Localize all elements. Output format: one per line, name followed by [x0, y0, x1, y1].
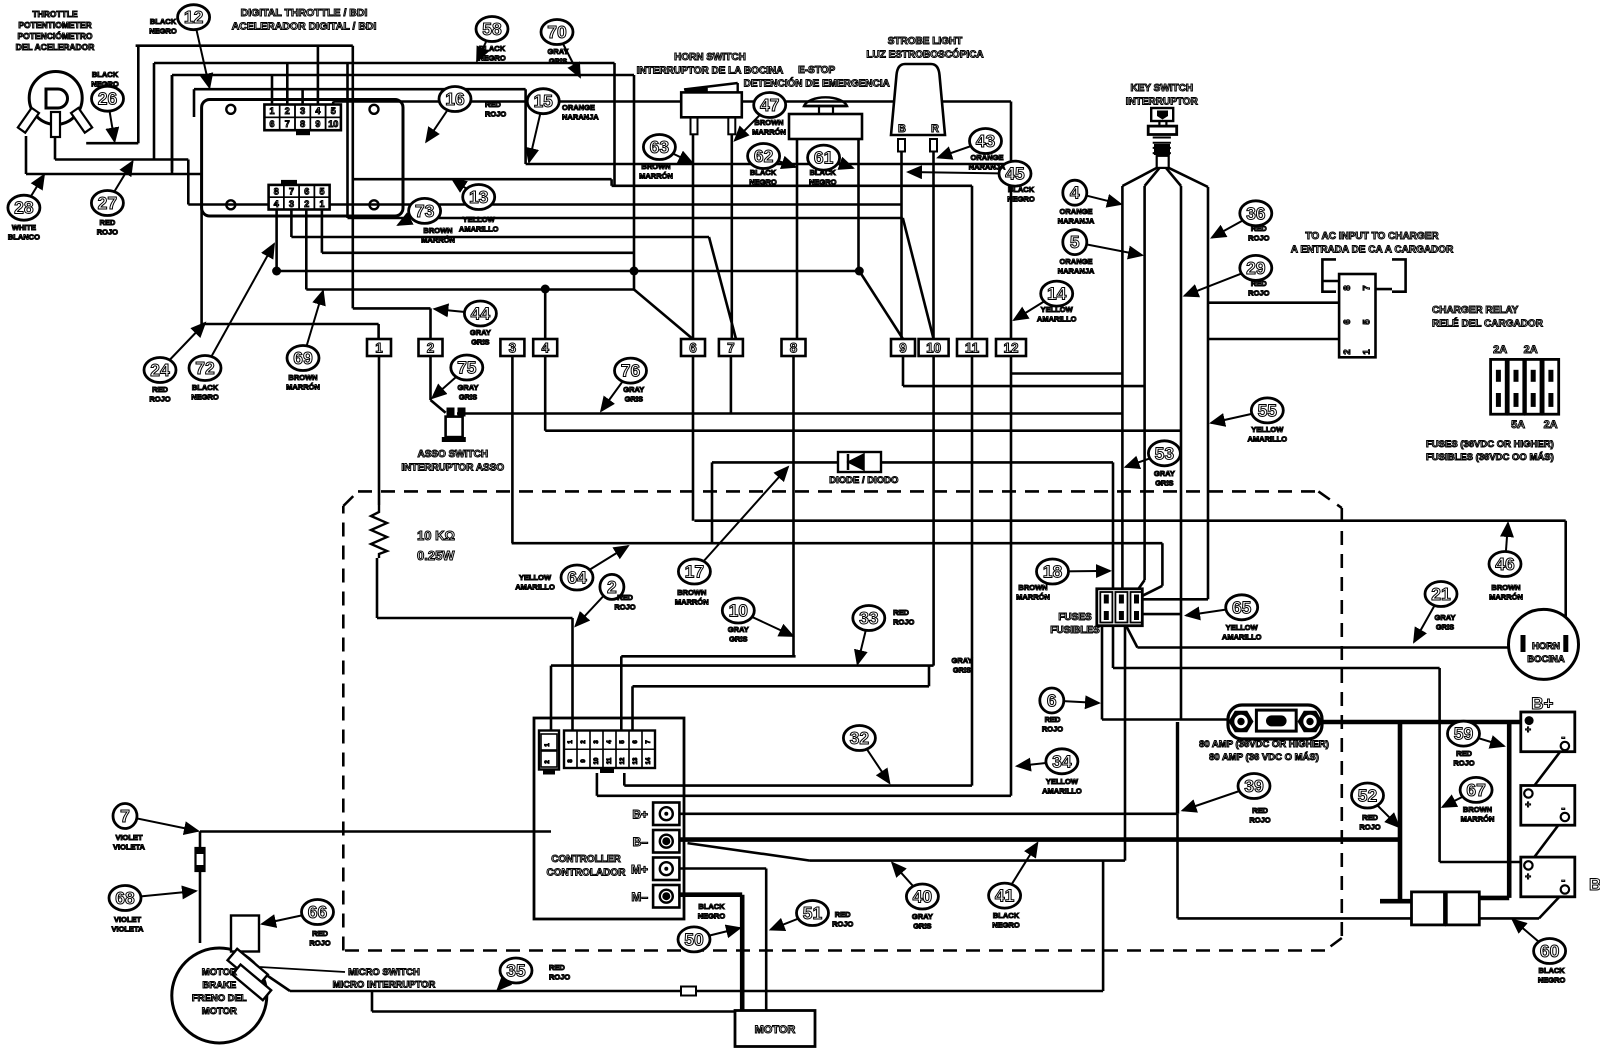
svg-text:2: 2 — [304, 199, 309, 209]
svg-text:72: 72 — [195, 358, 215, 378]
svg-text:BROWN: BROWN — [423, 226, 452, 235]
svg-text:3: 3 — [289, 199, 294, 209]
svg-text:BROWN: BROWN — [288, 373, 317, 382]
svg-text:6: 6 — [1342, 319, 1353, 324]
svg-text:MICRO SWITCH: MICRO SWITCH — [348, 967, 420, 978]
svg-text:43: 43 — [976, 131, 996, 151]
svg-text:26: 26 — [98, 89, 118, 109]
svg-text:ROJO: ROJO — [1248, 234, 1269, 243]
svg-text:7: 7 — [120, 806, 130, 826]
svg-text:80 AMP (36 VDC O MÁS): 80 AMP (36 VDC O MÁS) — [1209, 752, 1319, 763]
svg-text:80 AMP (36VDC OR HIGHER): 80 AMP (36VDC OR HIGHER) — [1199, 739, 1329, 750]
svg-text:NEGRO: NEGRO — [809, 178, 837, 187]
svg-text:FRENO DEL: FRENO DEL — [192, 993, 247, 1004]
svg-text:60: 60 — [1540, 941, 1560, 961]
svg-text:DEL ACELERADOR: DEL ACELERADOR — [16, 42, 95, 52]
svg-text:BLACK: BLACK — [150, 17, 177, 26]
svg-text:24: 24 — [150, 360, 170, 380]
svg-text:13: 13 — [633, 757, 639, 764]
svg-text:NEGRO: NEGRO — [992, 921, 1020, 930]
svg-text:BLACK: BLACK — [192, 383, 219, 392]
svg-text:INTERRUPTOR DE LA BOCINA: INTERRUPTOR DE LA BOCINA — [637, 66, 784, 77]
svg-text:69: 69 — [293, 348, 313, 368]
svg-text:BROWN: BROWN — [641, 162, 670, 171]
svg-text:4: 4 — [1070, 183, 1080, 203]
svg-text:2: 2 — [1342, 349, 1353, 354]
svg-text:51: 51 — [803, 903, 823, 923]
svg-text:STROBE LIGHT: STROBE LIGHT — [888, 36, 962, 47]
svg-text:14: 14 — [1047, 284, 1067, 304]
svg-text:36: 36 — [1246, 203, 1266, 223]
svg-text:NEGRO: NEGRO — [478, 54, 506, 63]
svg-text:ROJO: ROJO — [97, 228, 118, 237]
svg-text:52: 52 — [1358, 786, 1378, 806]
svg-text:ROJO: ROJO — [1249, 816, 1270, 825]
svg-text:61: 61 — [814, 148, 834, 168]
svg-text:GRAY: GRAY — [458, 383, 479, 392]
svg-text:34: 34 — [1052, 751, 1072, 771]
svg-text:DIGITAL THROTTLE / BDI: DIGITAL THROTTLE / BDI — [241, 7, 368, 19]
svg-text:8: 8 — [1342, 285, 1353, 290]
svg-text:GRIS: GRIS — [1436, 623, 1454, 632]
svg-text:28: 28 — [14, 198, 34, 218]
svg-text:6: 6 — [1047, 691, 1057, 711]
svg-text:62: 62 — [754, 146, 774, 166]
svg-text:NEGRO: NEGRO — [149, 27, 177, 36]
svg-text:33: 33 — [859, 608, 879, 628]
svg-text:10: 10 — [594, 757, 600, 764]
svg-text:M–: M– — [631, 890, 648, 904]
svg-text:INTERRUPTOR ASSO: INTERRUPTOR ASSO — [401, 463, 504, 474]
svg-text:GRAY: GRAY — [952, 656, 973, 665]
svg-text:MARRÓN: MARRÓN — [675, 598, 709, 607]
svg-text:6: 6 — [304, 186, 309, 196]
svg-text:47: 47 — [760, 95, 779, 115]
svg-text:GRIS: GRIS — [729, 635, 747, 644]
svg-text:NARANJA: NARANJA — [1058, 267, 1095, 276]
svg-text:WHITE: WHITE — [12, 223, 36, 232]
svg-text:THROTTLE: THROTTLE — [32, 9, 78, 19]
svg-text:YELLOW: YELLOW — [1251, 425, 1284, 434]
svg-text:8: 8 — [300, 119, 305, 129]
svg-text:GRAY: GRAY — [912, 912, 933, 921]
svg-text:ROJO: ROJO — [309, 939, 330, 948]
svg-text:2A: 2A — [1493, 344, 1507, 356]
svg-text:DIODE / DIODO: DIODE / DIODO — [829, 475, 898, 486]
svg-text:CHARGER RELAY: CHARGER RELAY — [1432, 305, 1519, 316]
svg-text:21: 21 — [1431, 584, 1451, 604]
svg-text:35: 35 — [506, 961, 526, 981]
svg-text:1: 1 — [375, 341, 383, 356]
svg-text:E-STOP: E-STOP — [798, 65, 835, 76]
svg-text:BLANCO: BLANCO — [8, 233, 40, 242]
svg-text:B+: B+ — [1531, 694, 1553, 713]
svg-text:BLACK: BLACK — [810, 168, 837, 177]
svg-text:41: 41 — [995, 886, 1015, 906]
svg-text:GRAY: GRAY — [1154, 469, 1175, 478]
svg-text:ROJO: ROJO — [1248, 289, 1269, 298]
svg-text:FUSES (36VDC OR HIGHER): FUSES (36VDC OR HIGHER) — [1426, 439, 1554, 450]
svg-text:ROJO: ROJO — [1359, 823, 1380, 832]
svg-text:39: 39 — [1244, 776, 1264, 796]
svg-text:3: 3 — [509, 341, 517, 356]
svg-text:ROJO: ROJO — [1042, 725, 1063, 734]
svg-text:CONTROLLER: CONTROLLER — [551, 854, 621, 865]
svg-text:RED: RED — [1251, 279, 1267, 288]
svg-text:RED: RED — [1456, 749, 1472, 758]
svg-text:73: 73 — [415, 201, 435, 221]
svg-text:12: 12 — [1003, 341, 1018, 356]
svg-text:RED: RED — [549, 963, 565, 972]
svg-text:BLACK: BLACK — [479, 44, 506, 53]
svg-text:14: 14 — [646, 757, 652, 764]
svg-text:11: 11 — [607, 757, 613, 764]
svg-text:YELLOW: YELLOW — [1046, 777, 1079, 786]
svg-text:16: 16 — [445, 89, 465, 109]
svg-text:HORN SWITCH: HORN SWITCH — [674, 52, 746, 63]
svg-text:5A: 5A — [1511, 419, 1525, 431]
svg-text:ROJO: ROJO — [832, 920, 853, 929]
svg-text:VIOLET: VIOLET — [114, 915, 142, 924]
svg-text:BLACK: BLACK — [993, 911, 1020, 920]
svg-text:RED: RED — [1045, 715, 1061, 724]
svg-text:MARRÓN: MARRÓN — [639, 172, 673, 181]
svg-text:ROJO: ROJO — [1453, 759, 1474, 768]
svg-text:BOCINA: BOCINA — [1527, 654, 1565, 665]
svg-text:BROWN: BROWN — [1463, 805, 1492, 814]
svg-text:NEGRO: NEGRO — [191, 393, 219, 402]
svg-text:67: 67 — [1466, 780, 1485, 800]
svg-text:MOTOR: MOTOR — [202, 1006, 237, 1017]
svg-text:ORANGE: ORANGE — [971, 153, 1004, 162]
svg-text:POTENCIÓMETRO: POTENCIÓMETRO — [17, 30, 92, 41]
svg-text:ACELERADOR DIGITAL / BDI: ACELERADOR DIGITAL / BDI — [232, 21, 377, 33]
svg-text:BROWN: BROWN — [1491, 583, 1520, 592]
svg-text:40: 40 — [913, 887, 933, 907]
svg-text:RED: RED — [152, 385, 168, 394]
svg-text:GRIS: GRIS — [1155, 479, 1173, 488]
svg-text:5: 5 — [1362, 319, 1373, 325]
svg-text:5: 5 — [331, 106, 336, 116]
svg-text:ASSO SWITCH: ASSO SWITCH — [418, 449, 489, 460]
svg-text:9: 9 — [315, 119, 320, 129]
svg-text:13: 13 — [469, 187, 489, 207]
svg-text:BROWN: BROWN — [677, 588, 706, 597]
svg-text:NEGRO: NEGRO — [749, 178, 777, 187]
svg-text:ROJO: ROJO — [485, 110, 506, 119]
svg-text:6: 6 — [689, 341, 697, 356]
svg-text:AMARILLO: AMARILLO — [1037, 315, 1077, 324]
svg-text:BROWN: BROWN — [754, 118, 783, 127]
svg-text:ORANGE: ORANGE — [1060, 207, 1093, 216]
svg-text:59: 59 — [1454, 724, 1474, 744]
svg-text:HORN: HORN — [1532, 641, 1560, 652]
svg-text:+: + — [1525, 800, 1531, 811]
svg-text:10: 10 — [729, 601, 749, 621]
svg-text:TO AC INPUT TO CHARGER: TO AC INPUT TO CHARGER — [1305, 231, 1439, 242]
svg-text:8: 8 — [790, 341, 798, 356]
svg-text:12: 12 — [184, 7, 204, 27]
svg-text:GRAY: GRAY — [548, 47, 569, 56]
svg-text:GRAY: GRAY — [623, 385, 644, 394]
svg-text:+: + — [1525, 872, 1531, 883]
svg-text:FUSIBLES: FUSIBLES — [1050, 625, 1100, 636]
svg-text:7: 7 — [289, 186, 294, 196]
svg-text:2: 2 — [427, 341, 435, 356]
svg-text:BLACK: BLACK — [1008, 185, 1035, 194]
svg-text:BLACK: BLACK — [750, 168, 777, 177]
svg-text:RELÉ DEL CARGADOR: RELÉ DEL CARGADOR — [1432, 317, 1544, 330]
svg-text:LUZ ESTROBOSCÓPICA: LUZ ESTROBOSCÓPICA — [866, 48, 983, 61]
svg-text:POTENTIOMETER: POTENTIOMETER — [18, 20, 91, 30]
svg-text:53: 53 — [1155, 443, 1175, 463]
svg-text:R: R — [931, 123, 939, 135]
svg-text:29: 29 — [1246, 258, 1266, 278]
svg-text:BLACK: BLACK — [698, 902, 725, 911]
svg-text:FUSIBLES (36VDC OO MÁS): FUSIBLES (36VDC OO MÁS) — [1426, 452, 1554, 463]
svg-text:0.25W: 0.25W — [417, 548, 455, 563]
svg-text:NEGRO: NEGRO — [1538, 976, 1566, 985]
svg-text:50: 50 — [684, 929, 704, 949]
svg-text:10: 10 — [926, 341, 941, 356]
svg-text:GRAY: GRAY — [1435, 613, 1456, 622]
svg-text:NEGRO: NEGRO — [91, 80, 119, 89]
svg-text:RED: RED — [1362, 813, 1378, 822]
svg-text:9: 9 — [899, 341, 907, 356]
svg-text:MARRÓN: MARRÓN — [286, 383, 320, 392]
svg-text:64: 64 — [567, 568, 587, 588]
svg-text:5: 5 — [1070, 232, 1080, 252]
svg-text:B: B — [898, 123, 906, 135]
svg-text:4: 4 — [274, 199, 279, 209]
svg-text:18: 18 — [1043, 562, 1063, 582]
svg-text:B+: B+ — [632, 808, 648, 822]
svg-text:M+: M+ — [631, 863, 648, 877]
svg-text:MOTOR: MOTOR — [755, 1024, 796, 1036]
svg-text:MICRO INTERRUPTOR: MICRO INTERRUPTOR — [333, 980, 436, 991]
svg-text:AMARILLO: AMARILLO — [1222, 633, 1262, 642]
svg-text:KEY SWITCH: KEY SWITCH — [1130, 83, 1193, 94]
svg-text:RED: RED — [835, 910, 851, 919]
svg-text:2: 2 — [285, 106, 290, 116]
svg-text:10: 10 — [328, 119, 338, 129]
svg-text:A ENTRADA DE CA A CARGADOR: A ENTRADA DE CA A CARGADOR — [1291, 245, 1454, 256]
svg-text:7: 7 — [1362, 285, 1373, 290]
svg-text:NARANJA: NARANJA — [1058, 217, 1095, 226]
svg-text:65: 65 — [1232, 597, 1252, 617]
svg-text:AMARILLO: AMARILLO — [1042, 787, 1082, 796]
svg-text:MARRÓN: MARRÓN — [1461, 815, 1495, 824]
svg-text:BLACK: BLACK — [1538, 966, 1565, 975]
svg-text:MARRÓN: MARRÓN — [1489, 593, 1523, 602]
svg-text:15: 15 — [533, 91, 553, 111]
svg-text:YELLOW: YELLOW — [463, 215, 496, 224]
svg-text:B-: B- — [1589, 875, 1600, 894]
svg-text:2: 2 — [607, 577, 617, 597]
svg-text:66: 66 — [308, 902, 328, 922]
svg-text:63: 63 — [650, 137, 670, 157]
svg-text:11: 11 — [965, 341, 980, 356]
svg-text:BROWN: BROWN — [1018, 583, 1047, 592]
svg-text:RED: RED — [1251, 224, 1267, 233]
svg-text:GRAY: GRAY — [728, 625, 749, 634]
svg-text:46: 46 — [1495, 554, 1515, 574]
svg-text:2A: 2A — [1544, 419, 1558, 431]
svg-text:44: 44 — [471, 304, 491, 324]
svg-text:NARANJA: NARANJA — [562, 113, 599, 122]
svg-text:YELLOW: YELLOW — [519, 573, 552, 582]
svg-text:ORANGE: ORANGE — [1060, 257, 1093, 266]
svg-text:INTERRUPTOR: INTERRUPTOR — [1126, 97, 1199, 108]
svg-text:GRIS: GRIS — [953, 666, 971, 675]
svg-text:ROJO: ROJO — [549, 973, 570, 982]
svg-text:8: 8 — [274, 186, 279, 196]
svg-text:YELLOW: YELLOW — [1226, 623, 1259, 632]
svg-text:68: 68 — [115, 888, 135, 908]
svg-text:RED: RED — [617, 593, 633, 602]
svg-text:45: 45 — [1005, 164, 1025, 184]
svg-text:ORANGE: ORANGE — [562, 103, 595, 112]
svg-text:FUSES: FUSES — [1058, 612, 1092, 623]
svg-text:58: 58 — [482, 19, 502, 39]
svg-text:GRIS: GRIS — [549, 57, 567, 66]
svg-text:1: 1 — [319, 199, 324, 209]
svg-text:MARRÓN: MARRÓN — [1016, 593, 1050, 602]
svg-text:VIOLETA: VIOLETA — [112, 925, 145, 934]
svg-text:1: 1 — [269, 106, 274, 116]
svg-text:AMARILLO: AMARILLO — [459, 225, 499, 234]
svg-text:75: 75 — [457, 358, 477, 378]
svg-text:ROJO: ROJO — [149, 395, 170, 404]
svg-text:NEGRO: NEGRO — [698, 912, 726, 921]
svg-text:RED: RED — [1252, 806, 1268, 815]
svg-text:RED: RED — [893, 608, 909, 617]
svg-text:GRIS: GRIS — [471, 338, 489, 347]
svg-text:BRAKE: BRAKE — [202, 980, 236, 991]
svg-text:B–: B– — [633, 835, 649, 849]
svg-text:3: 3 — [300, 106, 305, 116]
svg-text:27: 27 — [98, 193, 117, 213]
svg-text:NARANJA: NARANJA — [969, 163, 1006, 172]
svg-text:VIOLETA: VIOLETA — [113, 843, 146, 852]
svg-text:VIOLET: VIOLET — [115, 833, 143, 842]
svg-text:7: 7 — [727, 341, 735, 356]
svg-text:7: 7 — [285, 119, 290, 129]
svg-text:GRIS: GRIS — [913, 922, 931, 931]
svg-text:12: 12 — [620, 757, 626, 764]
svg-text:32: 32 — [850, 728, 870, 748]
svg-text:RED: RED — [485, 100, 501, 109]
svg-text:+: + — [1525, 725, 1531, 736]
svg-text:CONTROLADOR: CONTROLADOR — [547, 868, 627, 879]
svg-text:4: 4 — [541, 341, 549, 356]
svg-text:2A: 2A — [1524, 344, 1538, 356]
svg-text:ROJO: ROJO — [893, 618, 914, 627]
svg-text:70: 70 — [547, 22, 567, 42]
svg-text:17: 17 — [685, 562, 704, 582]
svg-text:RED: RED — [312, 929, 328, 938]
svg-text:1: 1 — [1362, 349, 1373, 355]
svg-text:10 KΩ: 10 KΩ — [417, 528, 455, 543]
svg-text:55: 55 — [1258, 400, 1278, 420]
svg-text:YELLOW: YELLOW — [1041, 305, 1074, 314]
svg-text:GRIS: GRIS — [459, 393, 477, 402]
svg-text:ROJO: ROJO — [614, 603, 635, 612]
svg-text:BLACK: BLACK — [92, 70, 119, 79]
svg-text:GRAY: GRAY — [470, 328, 491, 337]
svg-text:MARRÓN: MARRÓN — [752, 128, 786, 137]
svg-text:5: 5 — [319, 186, 324, 196]
svg-text:RED: RED — [99, 218, 115, 227]
svg-text:GRIS: GRIS — [625, 395, 643, 404]
svg-text:MOTOR: MOTOR — [202, 967, 237, 978]
svg-text:4: 4 — [315, 106, 320, 116]
svg-text:NEGRO: NEGRO — [1007, 195, 1035, 204]
svg-text:6: 6 — [269, 119, 274, 129]
svg-text:DETENCIÓN DE EMERGENCIA: DETENCIÓN DE EMERGENCIA — [744, 77, 890, 90]
svg-text:76: 76 — [621, 361, 641, 381]
svg-text:MARRÓN: MARRÓN — [421, 236, 455, 245]
svg-text:AMARILLO: AMARILLO — [1248, 435, 1288, 444]
svg-text:AMARILLO: AMARILLO — [515, 583, 555, 592]
